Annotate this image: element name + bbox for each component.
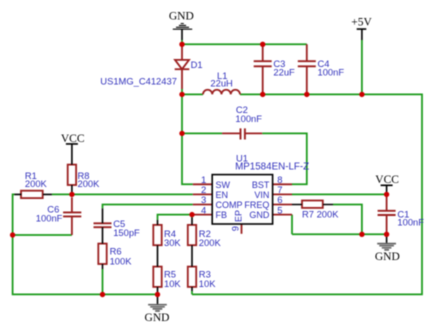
- svg-text:VCC: VCC: [375, 174, 399, 186]
- svg-text:10K: 10K: [164, 278, 181, 289]
- svg-text:+5V: +5V: [351, 16, 372, 28]
- svg-text:9: 9: [230, 226, 241, 231]
- svg-text:22uF: 22uF: [273, 66, 295, 77]
- svg-text:VIN: VIN: [254, 190, 269, 200]
- svg-text:SW: SW: [216, 180, 231, 190]
- svg-text:150pF: 150pF: [113, 227, 140, 238]
- svg-text:100K: 100K: [110, 255, 133, 266]
- svg-text:200K: 200K: [78, 178, 101, 189]
- svg-text:VCC: VCC: [61, 133, 85, 145]
- svg-text:100nF: 100nF: [235, 113, 262, 124]
- svg-text:100nF: 100nF: [397, 217, 424, 228]
- svg-text:100nF: 100nF: [36, 212, 63, 223]
- svg-text:22uH: 22uH: [210, 78, 232, 89]
- svg-text:EP: EP: [233, 210, 243, 222]
- svg-text:4: 4: [201, 205, 206, 216]
- svg-text:COMP: COMP: [216, 200, 243, 210]
- svg-text:EN: EN: [216, 190, 229, 200]
- svg-text:D1: D1: [191, 59, 203, 70]
- svg-text:100nF: 100nF: [318, 66, 345, 77]
- svg-text:GND: GND: [375, 251, 400, 263]
- svg-text:GND: GND: [249, 210, 270, 220]
- svg-text:5: 5: [277, 205, 282, 216]
- svg-text:MP1584EN-LF-Z: MP1584EN-LF-Z: [235, 161, 309, 172]
- svg-text:US1MG_C412437: US1MG_C412437: [100, 76, 177, 87]
- svg-text:BST: BST: [252, 180, 270, 190]
- svg-text:200K: 200K: [25, 178, 48, 189]
- svg-text:200K: 200K: [199, 237, 222, 248]
- svg-text:GND: GND: [145, 312, 170, 324]
- svg-text:FREQ: FREQ: [244, 200, 269, 210]
- svg-text:10K: 10K: [199, 278, 216, 289]
- svg-text:GND: GND: [169, 10, 194, 22]
- svg-text:30K: 30K: [164, 237, 181, 248]
- svg-text:R7 200K: R7 200K: [302, 209, 339, 220]
- svg-text:FB: FB: [216, 210, 228, 220]
